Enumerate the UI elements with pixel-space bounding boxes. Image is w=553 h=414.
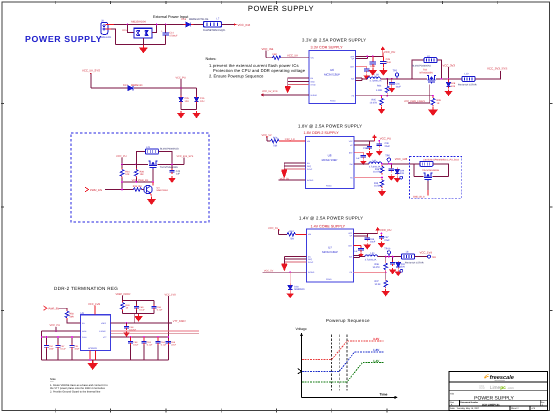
wire VCC_5V rail right xyxy=(134,87,197,89)
sheet title top xyxy=(248,4,314,13)
svg-text:2. Provide Ground Guard to the: 2. Provide Ground Guard to the thermal l… xyxy=(50,391,101,394)
svg-text:U8: U8 xyxy=(328,154,332,158)
ferrite L30 xyxy=(420,159,445,167)
ground C38 xyxy=(367,151,373,157)
net label VCC_IN4 input xyxy=(262,47,274,58)
power flag VCC_PU xyxy=(381,47,395,56)
wire ferrite to net label xyxy=(222,23,237,26)
wire L41 to ferrite xyxy=(378,256,402,258)
net label VCC_5V_SYS xyxy=(82,69,100,89)
svg-text:C39: C39 xyxy=(385,142,390,145)
power tap arrow down 1.4 xyxy=(282,264,288,270)
svg-text:BLM41P600SN1D: BLM41P600SN1D xyxy=(160,147,179,150)
pin stub J8-1 xyxy=(106,24,114,26)
svg-text:PWR_EN: PWR_EN xyxy=(49,307,60,310)
svg-text:L40: L40 xyxy=(372,159,377,162)
ground C28 xyxy=(380,68,387,75)
svg-text:DDR-2 TERMINATION REG: DDR-2 TERMINATION REG xyxy=(54,286,118,291)
ground R06 xyxy=(429,107,437,115)
svg-text:0.1uF: 0.1uF xyxy=(147,344,153,347)
svg-text:C67: C67 xyxy=(384,236,389,239)
svg-text:pc: pc xyxy=(500,386,506,391)
mosfet T04 xyxy=(148,161,178,169)
svg-text:internet: internet xyxy=(479,387,485,390)
zener D28 xyxy=(446,79,456,89)
connector J8 xyxy=(100,19,112,39)
page heading POWER SUPPLY blue xyxy=(25,34,102,44)
zener D29 xyxy=(395,168,405,176)
resistor R28 xyxy=(135,164,145,177)
svg-text:MBR0520: MBR0520 xyxy=(294,288,305,291)
testpoint TP10 xyxy=(384,248,391,258)
capacitor C59 xyxy=(151,305,163,312)
capacitor C58 xyxy=(128,337,139,360)
svg-text:U6: U6 xyxy=(330,68,334,72)
ferrite L10 xyxy=(458,73,477,87)
net label VCC_PU tap xyxy=(176,77,186,89)
svg-text:Time: Time xyxy=(380,392,388,396)
svg-text:Notes:: Notes: xyxy=(206,57,217,61)
svg-text:VCC_IN4: VCC_IN4 xyxy=(238,23,251,27)
ground input stage xyxy=(140,45,147,52)
regulator U8 xyxy=(306,136,355,188)
capacitor C68 bypass 1.4 xyxy=(353,246,363,254)
wire VCC_5V sense 1.8 xyxy=(279,177,306,180)
gate wire T05 xyxy=(427,181,429,196)
ground C68 bypass xyxy=(359,252,363,256)
svg-text:10.07K: 10.07K xyxy=(373,171,381,174)
regulator U9 xyxy=(81,312,111,351)
resistor R26 xyxy=(133,185,142,192)
svg-text:L10: L10 xyxy=(465,73,470,76)
wire R50 to EN xyxy=(67,319,81,323)
svg-text:VTT_DDR2: VTT_DDR2 xyxy=(173,320,187,323)
stub bridge bottom xyxy=(142,38,144,45)
svg-text:L29: L29 xyxy=(146,146,151,149)
SW pin wire 1.8 xyxy=(354,163,369,165)
svg-text:10K: 10K xyxy=(125,173,130,176)
svg-text:MB2S/HD04: MB2S/HD04 xyxy=(131,20,146,23)
capacitor C28 xyxy=(380,56,391,67)
svg-text:5V6: 5V6 xyxy=(400,172,405,175)
capacitor C67 xyxy=(379,232,390,241)
section title 1.8V xyxy=(298,123,362,128)
svg-text:PWRJACK: PWRJACK xyxy=(100,36,112,39)
net label VCC_IN4 xyxy=(238,23,251,27)
net label VCC_5V on VIN wire xyxy=(287,54,298,58)
svg-text:D15: D15 xyxy=(122,29,127,32)
svg-text:VCC_1V8: VCC_1V8 xyxy=(88,303,100,306)
svg-text:freescale: freescale xyxy=(490,374,514,381)
IC ground pins xyxy=(89,351,95,361)
svg-text:MBRS340T3LOS: MBRS340T3LOS xyxy=(189,18,209,21)
wire PVIN rail xyxy=(42,336,81,338)
SW pin wires 1.4 xyxy=(353,256,364,258)
ground Q4 xyxy=(148,197,155,204)
svg-text:56R: 56R xyxy=(70,315,75,318)
ddr note text xyxy=(50,378,108,394)
EN pin wires xyxy=(284,163,305,166)
freescale logo xyxy=(484,374,514,382)
ground C40 bypass xyxy=(361,160,366,165)
svg-text:SW: SW xyxy=(351,77,354,80)
axis chevron marker xyxy=(298,369,302,374)
svg-text:NCP5201: NCP5201 xyxy=(88,347,98,350)
inductor L41 xyxy=(365,252,378,262)
VTT pin rail xyxy=(110,336,169,338)
subtitle 1.8V DDR-2 SUPPLY xyxy=(304,131,340,135)
svg-text:10uF: 10uF xyxy=(396,85,402,88)
FB wire pink 1.4 xyxy=(353,272,385,274)
mosfet T05 xyxy=(414,169,449,181)
left rail vertical xyxy=(41,331,43,360)
svg-text:0.1uF: 0.1uF xyxy=(161,344,167,347)
svg-text:Document Number: Document Number xyxy=(460,401,478,404)
date row xyxy=(450,407,536,410)
svg-text:TP5: TP5 xyxy=(385,155,390,158)
wire VCC_5V sense to U6 xyxy=(261,90,309,96)
svg-text:1K: 1K xyxy=(437,102,440,105)
capacitor C66 xyxy=(365,236,376,244)
subtitle 3.3V COR SUPPLY xyxy=(311,46,344,50)
svg-text:D29: D29 xyxy=(400,170,405,173)
svg-text:FB2: FB2 xyxy=(273,53,278,56)
svg-text:1uF: 1uF xyxy=(176,173,181,176)
inductor L08 xyxy=(368,74,382,83)
svg-text:POWER SUPPLY: POWER SUPPLY xyxy=(248,4,314,13)
wire to VCC_3V3_SYS xyxy=(475,71,501,79)
gate wire T04 xyxy=(152,169,154,182)
svg-text:22uF: 22uF xyxy=(384,239,390,242)
svg-text:4.7uH/6.2A: 4.7uH/6.2A xyxy=(370,80,382,83)
wire diode to ferrite xyxy=(194,24,204,26)
wire T03 to output xyxy=(380,78,462,80)
net label VCC_1V8 top xyxy=(88,303,100,315)
svg-text:VCC_PWR_EN3V3: VCC_PWR_EN3V3 xyxy=(404,100,426,103)
svg-text:D31: D31 xyxy=(401,263,406,266)
svg-text:75R: 75R xyxy=(273,145,278,148)
ground C31 xyxy=(389,87,394,92)
net label VCC_3V3_SYS switch xyxy=(177,155,194,165)
svg-text:MBRS130: MBRS130 xyxy=(131,84,143,87)
diode cap C15 xyxy=(194,88,205,110)
svg-text:PWR_EN: PWR_EN xyxy=(90,188,102,192)
svg-text:10uF: 10uF xyxy=(370,241,376,244)
axis label Voltage xyxy=(296,327,307,331)
svg-text:BLM41PG600SN1: BLM41PG600SN1 xyxy=(412,65,432,68)
svg-text:22uF: 22uF xyxy=(370,65,376,68)
svg-text:MC34713EP: MC34713EP xyxy=(322,250,338,254)
svg-text:L41: L41 xyxy=(371,252,376,255)
svg-text:C66: C66 xyxy=(370,238,375,241)
net label VCC_PU ddr xyxy=(50,324,61,332)
svg-text:10U: 10U xyxy=(185,100,190,103)
svg-text:VCC_5V: VCC_5V xyxy=(264,270,274,273)
svg-text:0.1uF: 0.1uF xyxy=(60,348,66,351)
svg-text:10.5K: 10.5K xyxy=(374,185,380,188)
svg-text:4.99K: 4.99K xyxy=(376,89,383,92)
zener D31 xyxy=(396,261,406,269)
svg-text:D30: D30 xyxy=(294,285,299,288)
svg-text:GND_B1.8: GND_B1.8 xyxy=(413,195,425,198)
resistor R49 xyxy=(121,301,131,311)
resistor R24 xyxy=(120,164,130,178)
capacitor C27 xyxy=(370,56,376,68)
svg-text:1.8V DDR-2 SUPPLY: 1.8V DDR-2 SUPPLY xyxy=(304,131,340,135)
ground C39 xyxy=(376,149,382,155)
svg-text:VCC_5V: VCC_5V xyxy=(287,54,298,58)
svg-text:U9: U9 xyxy=(81,312,85,315)
wire VP pins right xyxy=(356,56,383,58)
svg-text:SW: SW xyxy=(349,256,352,259)
svg-text:Powerup Sequence: Powerup Sequence xyxy=(326,318,370,323)
net label VCC_3V3 xyxy=(443,63,456,79)
svg-text:VCC_5V: VCC_5V xyxy=(268,227,278,230)
zener D30 xyxy=(288,284,305,292)
power flag VCC_PU 1.8 xyxy=(373,135,392,141)
EN pin wires 1.4 xyxy=(284,257,306,260)
svg-text:SYNC: SYNC xyxy=(311,83,317,86)
ground U9 xyxy=(89,361,97,369)
junction bridge left xyxy=(126,24,128,26)
emitter ground Q4 xyxy=(151,193,152,197)
limepc logo xyxy=(479,385,514,392)
net label GND_B1.8 xyxy=(413,195,425,198)
svg-text:PVIN: PVIN xyxy=(82,336,87,339)
svg-text:10uF: 10uF xyxy=(74,348,80,351)
capacitor C68 xyxy=(390,256,395,266)
svg-text:SYNC: SYNC xyxy=(307,168,313,171)
svg-text:R36: R36 xyxy=(375,168,380,171)
ground D30 xyxy=(287,292,293,298)
resistor R04 xyxy=(376,78,389,97)
svg-text:R26 10K: R26 10K xyxy=(133,185,142,188)
resistor R57 xyxy=(287,230,295,241)
wire bridge right up xyxy=(152,24,158,33)
net label VTT_DDR2 xyxy=(173,320,187,323)
svg-text:VCC_3V3: VCC_3V3 xyxy=(443,63,456,67)
ground rail bottom xyxy=(42,359,169,361)
svg-text:1uF: 1uF xyxy=(354,250,358,253)
svg-text:3.3V COR SUPPLY: 3.3V COR SUPPLY xyxy=(311,46,344,50)
svg-text:VCC_5V_SYS: VCC_5V_SYS xyxy=(262,90,278,93)
ground C67 xyxy=(379,241,385,247)
net label VCC_3V3_SYS xyxy=(487,67,507,71)
ground C27 xyxy=(369,68,376,75)
svg-text:Tuesday, May 15, 2007: Tuesday, May 15, 2007 xyxy=(457,407,480,410)
svg-text:VCC_1V4: VCC_1V4 xyxy=(420,250,433,254)
svg-text:2. Ensure Powerup Sequence: 2. Ensure Powerup Sequence xyxy=(209,74,264,79)
svg-text:VCC_5V: VCC_5V xyxy=(280,177,290,180)
net label VCC_1V8 right xyxy=(165,293,177,360)
1.4V curve xyxy=(302,359,384,382)
svg-text:C43: C43 xyxy=(176,170,181,173)
svg-text:22uF: 22uF xyxy=(386,61,392,64)
wire AVIN rail xyxy=(42,330,81,332)
wire R26 to Q4 xyxy=(142,189,144,191)
capacitor C65 xyxy=(166,340,177,347)
ground C30 xyxy=(364,74,369,79)
VP pin wires right 1.4 xyxy=(353,233,377,236)
transistor Q4 xyxy=(144,185,169,193)
bypass ferrite L9 xyxy=(411,55,441,80)
dashed timing line 1 xyxy=(331,335,333,391)
resistor R56 xyxy=(271,136,279,147)
svg-text:10.07K: 10.07K xyxy=(370,102,378,105)
svg-text:VCC_5V_SYS: VCC_5V_SYS xyxy=(82,69,100,73)
svg-text:4700uF: 4700uF xyxy=(169,35,178,38)
svg-text:Lime: Lime xyxy=(490,385,501,391)
resistor R35 xyxy=(374,178,384,188)
svg-text:VCC_3V3_SYS: VCC_3V3_SYS xyxy=(487,67,507,71)
wire +5V input top xyxy=(114,24,186,26)
EN pin wires left xyxy=(288,78,309,82)
inductor L40 xyxy=(369,159,382,168)
ground R35 xyxy=(379,189,385,195)
wire VCC_5V sense 1.4 xyxy=(263,270,307,284)
ground R37 xyxy=(383,289,389,295)
svg-text:10uF: 10uF xyxy=(133,344,139,347)
svg-text:VCC_PU: VCC_PU xyxy=(380,228,391,232)
dashed power-switch box xyxy=(71,133,209,222)
capacitor C48 xyxy=(124,323,137,332)
wire to R56 xyxy=(267,140,271,142)
svg-text:1.4V @ 2.5A POWER SUPPLY: 1.4V @ 2.5A POWER SUPPLY xyxy=(299,215,363,220)
svg-text:Voltage: Voltage xyxy=(296,327,307,331)
net label VCC_PU switch xyxy=(116,155,127,165)
ferrite L29 bypass path xyxy=(135,146,179,165)
svg-text:1.8V: 1.8V xyxy=(373,348,380,352)
wire VREF pin xyxy=(110,314,172,324)
input port PWR_EN ddr xyxy=(44,306,60,310)
svg-text:C38: C38 xyxy=(363,147,368,150)
diode cap C05 xyxy=(179,88,190,110)
wire EN input xyxy=(59,308,67,309)
wire VIN 1.4 xyxy=(279,233,288,235)
dashed option box 1.8 xyxy=(410,157,462,199)
net label VCC_PWR_EN3V3 xyxy=(404,100,426,103)
wire VCC_5V rail left xyxy=(91,87,128,89)
title block frame xyxy=(449,372,548,411)
pass mosfet T03 xyxy=(420,69,437,84)
dashed timing line 3 xyxy=(346,335,348,391)
input port PWR_EN xyxy=(85,187,102,192)
svg-text:10K: 10K xyxy=(140,173,145,176)
svg-text:10uF: 10uF xyxy=(49,348,55,351)
svg-text:Sheet 2: Sheet 2 xyxy=(511,407,519,410)
svg-text:5VSNS: 5VSNS xyxy=(308,271,315,274)
capacitor C31 xyxy=(389,78,402,88)
svg-text:VCC_PU: VCC_PU xyxy=(116,155,127,158)
output terminal 1.4 xyxy=(428,255,437,259)
svg-text:VCC_PU: VCC_PU xyxy=(384,50,395,54)
svg-text:R56: R56 xyxy=(273,136,278,139)
svg-text:22uF: 22uF xyxy=(385,145,391,148)
VREF loop top wire xyxy=(123,301,155,306)
power tap arrow down 3.3 xyxy=(285,87,291,93)
wire PWR_EN to R26 xyxy=(105,189,133,191)
testpoint TP2 xyxy=(393,70,399,80)
svg-text:10U: 10U xyxy=(200,100,205,103)
wire connector down leg xyxy=(111,29,115,45)
svg-text:VCC_PU_B1.8: VCC_PU_B1.8 xyxy=(444,159,460,162)
ground C40 xyxy=(388,174,394,180)
wire cap bottoms xyxy=(181,109,197,111)
junction VP pins xyxy=(367,56,374,58)
net label VCC_1V8 xyxy=(395,157,408,161)
ground R05 xyxy=(379,107,385,113)
svg-text:1.4V CORE SUPPLY: 1.4V CORE SUPPLY xyxy=(311,225,346,229)
svg-text:DLW5BTM501SQ2L: DLW5BTM501SQ2L xyxy=(203,29,226,32)
resistor R37 xyxy=(375,273,388,289)
wire VCC_PU to T04 xyxy=(122,163,148,165)
svg-text:10.5K: 10.5K xyxy=(375,283,381,286)
wire R56 to U8 xyxy=(279,140,306,142)
svg-text:Date:: Date: xyxy=(450,407,456,410)
svg-text:VCC_1V8: VCC_1V8 xyxy=(395,157,408,161)
svg-text:R04: R04 xyxy=(377,85,382,88)
svg-text:VCC_IN4: VCC_IN4 xyxy=(262,47,274,51)
svg-text:1.4V: 1.4V xyxy=(373,359,380,363)
wire L8 to terminal xyxy=(415,256,428,258)
title row xyxy=(450,393,514,402)
power tap arrow down 1.8 xyxy=(281,170,287,177)
resistor R50 xyxy=(65,310,74,320)
3.3V curve xyxy=(302,337,384,359)
svg-text:1uF: 1uF xyxy=(356,157,360,160)
svg-text:5V6: 5V6 xyxy=(451,85,456,88)
svg-text:5VSNS: 5VSNS xyxy=(311,94,318,97)
ground C05 xyxy=(178,111,184,118)
svg-text:R28: R28 xyxy=(140,170,145,173)
svg-text:R50: R50 xyxy=(70,313,75,316)
gate wire T03 xyxy=(408,85,430,103)
svg-text:1.8V @ 2.5A POWER SUPPLY: 1.8V @ 2.5A POWER SUPPLY xyxy=(298,123,362,128)
svg-text:VCC_PU: VCC_PU xyxy=(50,324,61,327)
ground C48 xyxy=(124,331,129,337)
axis label Time xyxy=(380,392,388,396)
svg-text:10.07K: 10.07K xyxy=(373,266,381,269)
testpoint TP5 xyxy=(385,155,390,165)
resistor R36 xyxy=(373,163,384,175)
capacitor C38 xyxy=(363,144,372,150)
bridge rectifier D15 xyxy=(122,20,152,38)
svg-text:R35: R35 xyxy=(374,182,379,185)
net label VCC_5V VIN 1.4 xyxy=(268,227,279,235)
FB wire xyxy=(356,95,434,97)
svg-text:22uF: 22uF xyxy=(171,344,177,347)
diode D17 xyxy=(123,84,143,90)
svg-text:L08: L08 xyxy=(375,74,380,77)
ground VREF loop xyxy=(135,314,141,321)
capacitor C69 xyxy=(134,305,146,312)
wire into box xyxy=(414,164,420,177)
regulator U6 xyxy=(309,51,356,104)
net label VCC_1V4 xyxy=(420,250,433,254)
svg-text:Ferrite 6A 4.5THR: Ferrite 6A 4.5THR xyxy=(405,262,424,265)
svg-text:VCC_PU: VCC_PU xyxy=(176,77,186,80)
ground C43 xyxy=(169,176,175,182)
subtitle 1.4V CORE SUPPLY xyxy=(311,225,346,229)
label External Power Input xyxy=(153,15,189,19)
ferrite bead L1 xyxy=(203,18,226,32)
svg-text:VCC_PU: VCC_PU xyxy=(380,137,391,141)
ground C15 xyxy=(193,111,199,118)
X axis xyxy=(302,396,399,399)
svg-text:1.5V_1.8: 1.5V_1.8 xyxy=(285,138,296,141)
FB wire pink 1.8 xyxy=(354,177,383,179)
svg-text:SCH-LIMEPC01: SCH-LIMEPC01 xyxy=(482,403,500,406)
